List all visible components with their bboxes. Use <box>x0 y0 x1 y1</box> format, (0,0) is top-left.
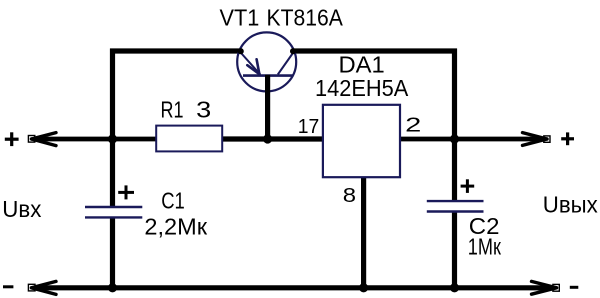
terminal square: input minus <box>28 284 35 291</box>
terminal square: output minus <box>553 284 559 291</box>
svg-text:KT816A: KT816A <box>267 4 344 30</box>
node label: input minus sign <box>3 285 13 288</box>
wire: C1 branch lower <box>110 218 115 291</box>
terminal arrow: input plus <box>32 133 57 146</box>
wire: VT1 base lead <box>265 75 270 139</box>
junction: output node <box>450 134 459 143</box>
terminal arrow: output minus <box>532 281 557 294</box>
terminal arrow: input minus <box>32 281 57 294</box>
capacitor C1 polarity plus <box>118 185 134 199</box>
terminal arrow: output plus <box>523 133 548 146</box>
svg-text:C1: C1 <box>161 188 185 214</box>
capacitor C1 <box>85 207 142 217</box>
svg-text:VT1: VT1 <box>220 4 260 30</box>
wire: right vertical lower (C2 to bottom rail) <box>452 212 457 291</box>
node label: input plus sign <box>5 132 19 146</box>
junction: bottom pin-8 node <box>359 283 368 292</box>
svg-text:R1: R1 <box>161 97 184 123</box>
junction: bottom C2 node <box>450 283 459 292</box>
svg-text:17: 17 <box>298 115 320 138</box>
junction: base node <box>263 134 272 143</box>
wire: mid rail right (DA1 pin 2 to output) <box>398 137 544 142</box>
terminal square: output plus <box>544 136 550 142</box>
wire: mid rail left (input to R1) <box>34 137 160 142</box>
wire: top rail left segment <box>110 48 241 53</box>
wire: C1 branch upper <box>110 139 115 207</box>
svg-text:142EH5A: 142EH5A <box>315 75 409 101</box>
resistor R1 <box>156 126 222 152</box>
node label: output plus sign <box>561 132 574 145</box>
svg-text:3: 3 <box>196 97 211 123</box>
junction: input node <box>108 134 117 143</box>
wire: left input vertical <box>110 49 115 140</box>
op-amp U1: voltage regulator DA1 box <box>323 105 400 177</box>
svg-text:Uвх: Uвх <box>2 196 41 222</box>
capacitor C2 <box>427 201 484 211</box>
capacitor C2 polarity plus <box>461 179 475 193</box>
wire: right vertical upper (top rail to C2) <box>452 49 457 202</box>
svg-text:8: 8 <box>343 184 356 207</box>
wire: top rail right segment <box>293 48 457 53</box>
svg-text:2: 2 <box>405 114 421 137</box>
svg-text:2,2Мк: 2,2Мк <box>144 213 207 239</box>
junction: bottom C1 node <box>108 283 117 292</box>
transistor VT1 <box>237 32 296 91</box>
wire: mid rail middle (R1 to DA1 pin 17) <box>220 136 326 141</box>
wire: bottom rail <box>35 285 554 290</box>
svg-text:DA1: DA1 <box>339 52 385 78</box>
terminal square: input plus <box>28 136 34 143</box>
svg-text:1Мк: 1Мк <box>468 234 502 260</box>
svg-text:Uвых: Uвых <box>543 192 598 218</box>
wire: DA1 pin 8 lead <box>361 175 366 290</box>
node label: output minus sign <box>570 286 579 289</box>
